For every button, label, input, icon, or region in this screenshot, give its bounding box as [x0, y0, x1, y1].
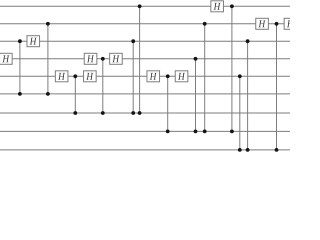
CZ q4-q7 vertical: [102, 59, 104, 113]
wire q1: [0, 5, 290, 7]
CZ q3-q7 vertical: [132, 41, 134, 113]
CZ q4-q8 vertical: [195, 59, 197, 132]
wire q3: [0, 40, 290, 42]
control dot q5 x240: [238, 74, 242, 78]
CZ q2-q9 vertical: [276, 24, 278, 150]
CZ q3-q6 vertical: [19, 41, 21, 94]
wire q8: [0, 130, 290, 132]
control dot q8 x168: [166, 130, 170, 134]
wire q4: [0, 58, 290, 60]
CZ q2-q8 vertical: [204, 24, 206, 132]
H gate q2 x262: [256, 18, 269, 29]
control dot q7 x140: [138, 111, 142, 115]
wire q7: [0, 112, 290, 114]
H gate q1 x217: [211, 1, 224, 12]
CZ q5-q9 vertical: [239, 76, 241, 150]
control dot q6 x20: [18, 92, 22, 96]
control dot q7 x133: [131, 111, 135, 115]
control dot q9 x277: [275, 148, 279, 152]
CZ q1-q8 vertical: [231, 6, 233, 131]
wire q6: [0, 93, 290, 95]
H gate q5 x90: [84, 71, 97, 82]
CZ q5-q8 vertical: [167, 76, 169, 131]
control dot q5 x168: [166, 74, 170, 78]
control dot q9 x240: [238, 148, 242, 152]
control dot q2 x277: [275, 22, 279, 26]
control dot q4 x103: [101, 57, 105, 61]
control dot q9 x248: [246, 148, 250, 152]
control dot q7 x75: [73, 111, 77, 115]
wire q2: [0, 23, 290, 25]
H gate q5 x62: [55, 71, 68, 82]
control dot q2 x205: [203, 22, 207, 26]
control dot q8 x232: [230, 130, 234, 134]
control dot q1 x232: [230, 4, 234, 8]
CZ q5-q7 vertical: [74, 76, 76, 113]
H gate q5 x153: [147, 71, 160, 82]
H gate q4 x116: [110, 53, 123, 64]
control dot q8 x205: [203, 130, 207, 134]
H gate q2 x290 (right edge, cut off): [284, 18, 297, 29]
CZ q1-q7 vertical: [139, 6, 141, 113]
control dot q2 x48: [46, 22, 50, 26]
control dot q1 x140: [138, 4, 142, 8]
H gate q5 x181: [175, 71, 188, 82]
control dot q3 x248: [246, 39, 250, 43]
control dot q3 x20: [18, 39, 22, 43]
control dot q7 x103: [101, 111, 105, 115]
control dot q6 x48: [46, 92, 50, 96]
control dot q8 x196: [194, 130, 198, 134]
wire q5: [0, 75, 290, 77]
control dot q4 x196: [194, 57, 198, 61]
H gate q4 x90: [84, 53, 97, 64]
CZ q3-q9 vertical: [247, 41, 249, 150]
control dot q3 x133: [131, 39, 135, 43]
control dot q5 x75: [73, 74, 77, 78]
wire q9: [0, 149, 290, 151]
H gate q3 x33: [27, 36, 40, 47]
CZ q2-q6 vertical: [47, 24, 49, 94]
H gate q4 x6 (left edge): [0, 53, 12, 64]
